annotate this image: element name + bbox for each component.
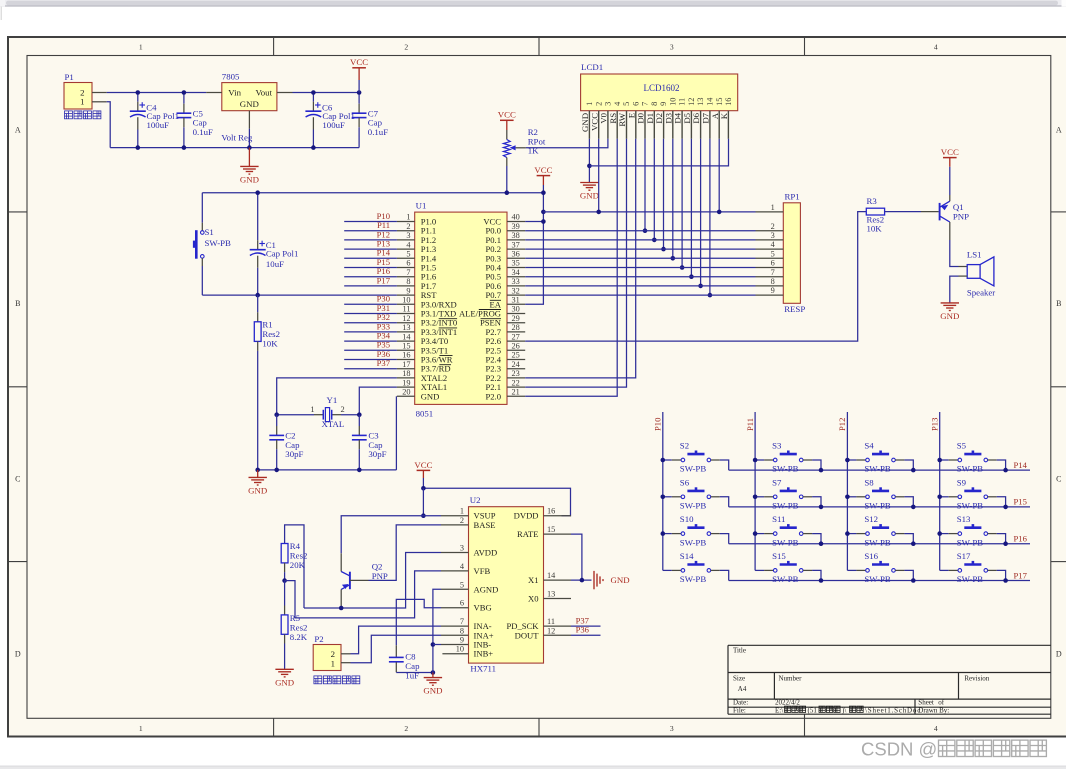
wire AGND INB- down to gnd [433,589,441,672]
svg-text:VFB: VFB [474,566,491,576]
ground R5 [275,668,293,670]
svg-text:DOUT: DOUT [515,630,540,640]
ground X1 (rotated) [593,571,595,589]
svg-text:Date:: Date: [733,699,748,707]
wire C8 gnd rail [396,672,433,674]
svg-text:P37: P37 [377,358,391,368]
svg-text:30pF: 30pF [368,449,386,459]
svg-text:2: 2 [404,42,408,51]
switch S12 SW-PB [847,533,856,535]
svg-text:0.1uF: 0.1uF [368,127,388,137]
U2 pins right [544,515,572,517]
svg-text:38: 38 [512,231,520,240]
svg-text:25: 25 [512,351,520,360]
svg-text:C: C [15,475,20,484]
svg-text:7: 7 [771,268,775,277]
svg-text:Sheet: Sheet [918,699,934,707]
svg-text:15: 15 [547,525,555,534]
svg-text:Size: Size [733,675,745,683]
svg-text:0.1uF: 0.1uF [193,127,213,137]
svg-text:P16: P16 [1014,534,1028,544]
svg-text:1: 1 [771,203,775,212]
speaker LS1 [967,265,980,279]
svg-text:34: 34 [512,268,521,277]
ground under 7805 [248,148,250,167]
svg-text:40: 40 [512,213,520,222]
svg-text:4: 4 [934,724,938,733]
svg-text:31: 31 [512,296,520,305]
svg-text:VCC: VCC [350,57,368,67]
svg-text:BASE: BASE [474,520,496,530]
wire VCC to DVDD [422,478,424,488]
svg-text:29: 29 [512,314,520,323]
svg-text:(51: (51 [808,707,818,715]
svg-text:SW-PB: SW-PB [957,537,984,547]
potentiometer R2 RPot [506,130,508,140]
wire INB- row [433,644,441,646]
wire VCC to EA [525,185,543,304]
svg-text:15: 15 [402,342,410,351]
svg-text:11: 11 [547,617,555,626]
svg-text:10: 10 [456,645,464,654]
svg-text:2: 2 [404,724,408,733]
LCD data wires D0-D7 to P0 [644,139,646,231]
wire bottom gnd rail [110,147,359,149]
svg-text:VCC: VCC [414,460,432,470]
svg-text:3: 3 [406,231,410,240]
svg-text:2: 2 [594,102,603,106]
wire P2.6 to R3 [525,212,866,342]
switch S16 SW-PB [847,569,856,571]
svg-text:20: 20 [402,388,410,397]
svg-text:7: 7 [460,617,464,626]
svg-text:7805: 7805 [222,72,240,82]
svg-text:35: 35 [512,259,520,268]
svg-text:U2: U2 [470,495,481,505]
wire XTAL2 (pin18) [277,378,397,415]
svg-text:7: 7 [641,102,650,106]
svg-text:10K: 10K [867,224,883,234]
svg-text:10: 10 [402,296,410,305]
svg-text:LCD1: LCD1 [581,62,603,72]
svg-text:GND: GND [940,311,959,321]
RP1 pins [756,211,784,213]
wire reset top (y=192.7) [202,192,543,194]
switch S1 [201,193,203,223]
net labels P10-P17 P30-P37 [344,221,397,223]
svg-text:VBG: VBG [474,603,492,613]
svg-text:Title: Title [733,646,746,654]
svg-text:P17: P17 [1014,570,1028,580]
svg-text:S3: S3 [772,441,782,451]
svg-text:S13: S13 [957,514,971,524]
svg-text:4: 4 [934,42,938,51]
svg-text:XTAL: XTAL [322,419,345,429]
node P12 column [846,412,848,570]
svg-text:R1: R1 [262,319,272,329]
wire R3 to Q1 base [885,211,921,213]
svg-text:28: 28 [512,323,520,332]
wire top rail [107,92,207,94]
svg-text:AGND: AGND [474,584,499,594]
wire LCD pin16 K [589,139,728,166]
wire row bus P15 [729,506,1030,508]
svg-text:C: C [1056,475,1061,484]
svg-text:30: 30 [512,305,520,314]
svg-text:Speaker: Speaker [967,287,995,297]
svg-text:SW-PB: SW-PB [864,501,891,511]
svg-text:SW-PB: SW-PB [772,464,799,474]
connector P2 [313,645,341,671]
svg-text:6: 6 [460,599,464,608]
svg-text:DVDD: DVDD [514,511,539,521]
wire LCD pin15 A to VCC rail [718,139,720,212]
switch S5 SW-PB [940,459,949,461]
svg-text:S4: S4 [864,441,874,451]
svg-text:Vin: Vin [228,88,241,98]
switch S6 SW-PB [663,496,672,498]
resistor R5 [284,581,286,606]
switch S17 SW-PB [940,569,949,571]
svg-text:16: 16 [547,507,555,516]
svg-text:P15: P15 [1014,497,1027,507]
svg-text:2: 2 [460,516,464,525]
svg-text:S9: S9 [957,477,967,487]
ground xtal rail [257,470,259,478]
svg-text:Volt Reg: Volt Reg [221,132,252,142]
resistor R3 [866,208,884,215]
svg-text:SW-PB: SW-PB [864,464,891,474]
svg-text:17: 17 [402,360,410,369]
svg-text:9: 9 [460,636,464,645]
svg-text:SW-PB: SW-PB [680,464,707,474]
svg-text:P2.0: P2.0 [485,391,501,401]
svg-text:C8: C8 [405,652,416,662]
power port VCC (Q1) [943,157,957,159]
svg-text:E:\: E:\ [775,707,783,715]
wire row bus P16 [729,543,1030,545]
svg-text:GND: GND [423,686,442,696]
wire RATE and X1 to gnd [571,534,582,580]
svg-text:A: A [15,125,21,134]
svg-text:PNP: PNP [372,571,388,581]
switch S2 SW-PB [663,459,672,461]
svg-text:11: 11 [678,98,687,106]
svg-text:1: 1 [331,658,335,668]
svg-text:15: 15 [715,98,724,106]
transistor Q1 PNP [939,203,941,221]
svg-text:5: 5 [406,250,410,259]
U1 overbars [439,318,457,320]
switch S4 SW-PB [847,459,856,461]
svg-text:8.2K: 8.2K [290,632,308,642]
svg-text:Q2: Q2 [372,561,383,571]
svg-text:10: 10 [668,98,677,106]
wire VSUP row [341,516,441,554]
wire VFB divider tap [282,578,287,583]
svg-text:6: 6 [631,102,640,106]
svg-text:P10: P10 [653,418,663,431]
top scrollbar [0,0,1066,6]
switch S7 SW-PB [755,496,764,498]
title block [728,644,1051,646]
svg-text:8: 8 [406,277,410,286]
svg-text:SW-PB: SW-PB [957,464,984,474]
capacitor C1 [257,193,259,241]
wire LS1 to gnd [959,275,968,277]
wire LCD pin3 V0 to R2 wiper [526,139,608,148]
svg-text:P14: P14 [1014,460,1028,470]
svg-text:14: 14 [547,571,556,580]
node P13 column [939,412,941,570]
svg-text:CSDN @: CSDN @ [861,739,937,760]
IC U1 8051 body [415,212,507,404]
LCD pins [588,111,590,139]
svg-text:1: 1 [139,724,143,733]
svg-text:B: B [15,299,20,308]
svg-text:23: 23 [512,369,520,378]
svg-text:100uF: 100uF [147,120,170,130]
svg-text:3: 3 [460,544,464,553]
svg-text:S17: S17 [957,551,971,561]
svg-text:12: 12 [402,314,410,323]
resistor R1 [257,295,259,312]
svg-text:S5: S5 [957,441,967,451]
wire LCD pin1 GND [588,139,590,183]
svg-text:P13: P13 [930,418,940,431]
svg-text:GND: GND [240,174,259,184]
svg-text:S12: S12 [864,514,878,524]
svg-text:1: 1 [80,97,84,107]
svg-text:1K: 1K [528,146,539,156]
capacitor C4 [137,93,139,102]
svg-text:S16: S16 [864,551,878,561]
wire U1 pin40 VCC [525,221,543,223]
voltage regulator 7805 [222,83,277,111]
svg-text:2022/4/2: 2022/4/2 [775,699,800,707]
svg-text:Number: Number [779,675,803,683]
svg-text:6: 6 [771,259,775,268]
svg-text:SW-PB: SW-PB [680,537,707,547]
svg-text:S14: S14 [680,551,694,561]
svg-text:10uF: 10uF [266,259,284,269]
svg-text:36: 36 [512,250,520,259]
svg-text:100uF: 100uF [322,120,345,130]
svg-text:16: 16 [402,351,410,360]
svg-text:X0: X0 [528,594,539,604]
svg-text:12: 12 [687,98,696,106]
switch S8 SW-PB [847,496,856,498]
net label P36 wire [571,634,601,636]
capacitor C2 [276,415,278,426]
net label P37 wire [571,625,601,627]
power port VCC top-left [358,68,360,80]
svg-text:9: 9 [406,286,410,295]
svg-text:18: 18 [402,369,410,378]
resistor network RP1 RESP [783,203,800,303]
svg-text:Cap Pol1: Cap Pol1 [266,249,299,259]
wire row bus P17 [729,580,1030,582]
U2 pins left [441,515,469,517]
svg-text:X1: X1 [528,575,539,585]
U1 pins [397,221,415,223]
switch S15 SW-PB [755,569,764,571]
ground LCD [580,182,598,184]
svg-text:C2: C2 [285,430,295,440]
svg-text:Revision: Revision [964,675,989,683]
svg-text:8: 8 [460,626,464,635]
svg-text:RATE: RATE [517,529,538,539]
svg-text:7: 7 [406,268,410,277]
svg-text:8: 8 [650,102,659,106]
svg-text:6: 6 [406,259,410,268]
connector LCD1 LCD1602 [581,74,738,111]
svg-text:Q1: Q1 [953,202,964,212]
svg-text:Vout: Vout [256,88,273,98]
svg-text:2: 2 [771,222,775,231]
svg-text:SW-PB: SW-PB [772,501,799,511]
svg-text:3: 3 [604,102,613,106]
svg-text:9: 9 [771,286,775,295]
svg-text:VCC: VCC [498,110,516,120]
svg-text:1: 1 [139,42,143,51]
svg-text:SW-PB: SW-PB [864,574,891,584]
svg-text:GND: GND [275,677,294,687]
svg-text:37: 37 [512,240,520,249]
svg-text:LCD1602: LCD1602 [644,83,680,93]
switch S13 SW-PB [940,533,949,535]
svg-text:VCC: VCC [534,165,552,175]
svg-text:S2: S2 [680,441,689,451]
wire P2 pin1 to INA+ [341,662,351,664]
svg-text:D: D [15,649,21,658]
svg-text:RESP: RESP [784,304,805,314]
switch S3 SW-PB [755,459,764,461]
wire U1 pin20 gnd drop [395,396,397,470]
svg-text:)\: )\ [842,707,846,715]
wire RST row [202,294,397,296]
svg-text:GND: GND [248,485,267,495]
node P10 column [662,412,664,570]
svg-text:AVDD: AVDD [474,548,498,558]
svg-text:SW-PB: SW-PB [205,238,232,248]
zone ticks [273,37,275,56]
capacitor C8 and VBG wire [396,599,441,645]
svg-text:P36: P36 [576,625,590,635]
svg-text:SW-PB: SW-PB [957,574,984,584]
ground Q1 [941,302,959,304]
svg-text:S7: S7 [772,477,782,487]
svg-text:21: 21 [512,388,520,397]
wire Q1 collector to LS1 [949,222,951,240]
svg-text:PNP: PNP [953,212,969,222]
wire xtal gnd rail [258,469,397,471]
wire row bus P14 [729,469,1030,471]
svg-text:D: D [1056,649,1062,658]
svg-text:30pF: 30pF [285,449,303,459]
svg-text:VCC: VCC [941,147,959,157]
svg-text:S6: S6 [680,477,690,487]
svg-text:20K: 20K [290,560,306,570]
ground U2 [432,673,434,678]
svg-text:9: 9 [659,102,668,106]
svg-text:32: 32 [512,286,520,295]
svg-text:SW-PB: SW-PB [680,501,707,511]
svg-text:SW-PB: SW-PB [680,574,707,584]
svg-text:A: A [1056,125,1062,134]
wire VCC rail to RP1 pin1 [543,211,755,213]
connector P1 [64,83,92,110]
svg-text:GND: GND [580,191,599,201]
svg-text:39: 39 [512,222,520,231]
svg-text:13: 13 [402,323,410,332]
svg-text:1: 1 [406,213,410,222]
svg-text:S10: S10 [680,514,694,524]
svg-text:27: 27 [512,332,520,341]
svg-text:3: 3 [670,42,674,51]
svg-text:K: K [719,112,729,119]
svg-text:13: 13 [547,590,555,599]
svg-text:S11: S11 [772,514,785,524]
switch S11 SW-PB [755,533,764,535]
svg-text:26: 26 [512,342,520,351]
wire Q2 emitter rail to AVDD [340,589,342,608]
svg-text:SW-PB: SW-PB [957,501,984,511]
7805 gnd pin wire [248,111,250,129]
svg-text:Drawn By:: Drawn By: [918,707,949,715]
capacitor C6 [312,93,314,102]
wire LCD pin2 VCC [598,139,600,212]
svg-text:HX711: HX711 [470,664,496,674]
svg-text:8: 8 [771,277,775,286]
svg-text:P12: P12 [837,418,847,431]
svg-text:P1: P1 [65,72,74,82]
svg-text:5: 5 [771,249,775,258]
wire XTAL1 (pin19) [359,387,397,415]
svg-text:22: 22 [512,378,520,387]
svg-text:GND: GND [240,99,259,109]
svg-text:A4: A4 [738,685,747,693]
crystal Y1 [277,414,314,416]
svg-text:33: 33 [512,277,520,286]
svg-text:SW-PB: SW-PB [772,537,799,547]
svg-text:5: 5 [460,580,464,589]
bottom strip [0,766,1066,769]
svg-text:B: B [1056,299,1061,308]
switch S9 SW-PB [940,496,949,498]
svg-text:2: 2 [406,222,410,231]
svg-text:File:: File: [733,707,746,715]
svg-text:1: 1 [310,405,314,414]
svg-text:14: 14 [706,97,715,106]
wires P0.0-P0.7 rows to RP1 [525,230,755,232]
svg-text:P17: P17 [377,275,391,285]
svg-text:GND: GND [421,391,440,401]
svg-text:S15: S15 [772,551,786,561]
svg-text:19: 19 [402,378,410,387]
wires P2.0 P2.1 P2.2 to LCD RS RW E [525,139,617,397]
power port VCC (U1) [537,175,551,177]
resistor R4 [285,525,304,608]
power port VCC (U2) [417,469,431,471]
node P11 column [754,412,756,570]
svg-text:1: 1 [585,102,594,106]
transistor Q2 PNP [340,553,342,571]
svg-text:3: 3 [771,231,775,240]
svg-text:of: of [938,699,945,707]
svg-text:S1: S1 [205,227,214,237]
svg-text:Y1: Y1 [327,395,338,405]
